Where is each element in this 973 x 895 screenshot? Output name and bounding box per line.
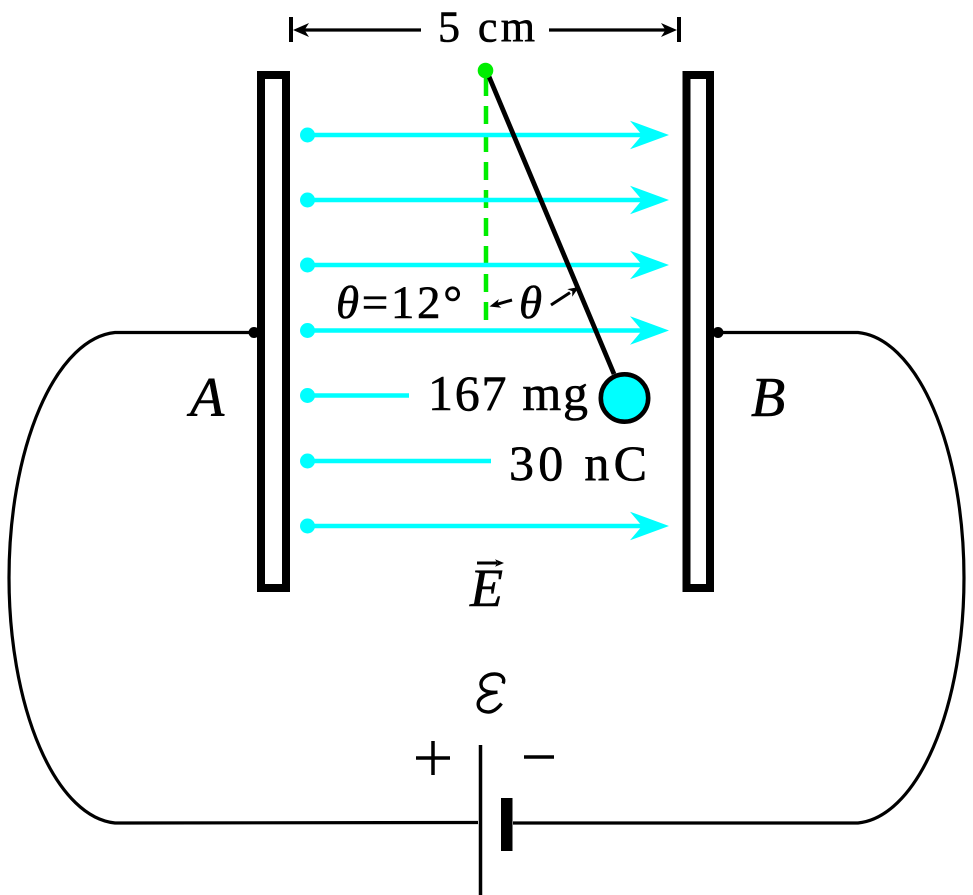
capacitor plate B: [687, 75, 711, 588]
svg-text:A: A: [186, 367, 225, 429]
field line 6 (short): [300, 454, 491, 469]
field line 1: [300, 121, 669, 150]
svg-text:θ=12°: θ=12°: [336, 277, 462, 329]
svg-text:5 cm: 5 cm: [438, 3, 535, 52]
dimension 5 cm : left shaft: [303, 28, 421, 31]
angle annotation arrow left (points to dashed line): [490, 299, 513, 308]
field line 7: [300, 512, 669, 541]
field line 4: [300, 316, 669, 345]
field line 2: [300, 186, 669, 215]
dimension 5 cm : left arrowhead: [293, 23, 309, 37]
charged ball: [601, 374, 648, 421]
svg-text:30 nC: 30 nC: [509, 435, 647, 491]
EMF script E label: [478, 674, 504, 712]
wire loop left (plate A to battery): [9, 333, 478, 824]
wire loop right (battery to plate B): [513, 333, 964, 824]
dimension 5 cm : right tick: [677, 17, 681, 42]
vector arrow over E: [477, 562, 497, 565]
angle annotation arrow right (points to string): [551, 287, 579, 305]
battery - sign: [524, 755, 554, 759]
pendulum pivot dot: [478, 63, 494, 79]
dimension 5 cm : right shaft: [549, 28, 667, 31]
junction dot at plate A: [249, 327, 260, 338]
svg-text:B: B: [751, 367, 785, 429]
battery short plate (negative): [501, 798, 513, 851]
capacitor plate A: [261, 75, 286, 588]
battery long plate (positive): [479, 745, 483, 895]
svg-text:167 mg: 167 mg: [428, 365, 588, 421]
pendulum string: [488, 73, 615, 374]
field line 3: [300, 251, 669, 280]
dimension 5 cm : right arrowhead: [661, 23, 677, 37]
svg-text:E: E: [469, 558, 503, 618]
dimension 5 cm : left tick: [289, 17, 293, 42]
svg-text:θ: θ: [519, 277, 542, 329]
pendulum vertical dashed reference line: [484, 78, 489, 332]
field line 5 (short): [300, 388, 409, 403]
junction dot at plate B: [713, 327, 724, 338]
battery + sign: [416, 741, 450, 775]
